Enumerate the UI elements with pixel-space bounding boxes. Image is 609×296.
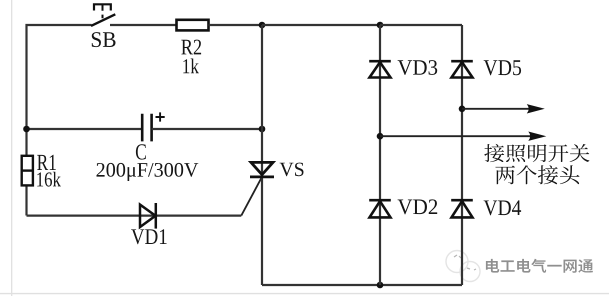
node B junction xyxy=(377,22,384,29)
wire node A to node B xyxy=(262,24,380,26)
label SB xyxy=(92,32,116,47)
node D junction xyxy=(259,126,266,133)
label VD5 xyxy=(484,60,521,75)
label VD2 xyxy=(398,199,438,214)
resistor R1 xyxy=(22,156,33,186)
thyristor VS xyxy=(250,162,274,177)
label R2 xyxy=(181,40,201,55)
node G junction arrow1 tap xyxy=(459,106,466,113)
label value 200uF/300V xyxy=(96,163,198,181)
wire col2 xyxy=(461,25,463,285)
label 16k xyxy=(37,172,61,187)
label VS xyxy=(280,163,304,177)
wire cap row left xyxy=(27,128,142,130)
label VD4 xyxy=(484,200,521,215)
diode VD5 xyxy=(451,61,473,77)
diode VD1 xyxy=(140,203,156,229)
wire cap to node D xyxy=(152,128,262,130)
output arrow 1 xyxy=(462,104,545,113)
diode VD3 xyxy=(369,61,391,77)
watermark text dian gong dian qi yi wang tong xyxy=(486,259,593,273)
node A junction xyxy=(259,22,266,29)
label VD1 xyxy=(131,229,166,244)
label 1k xyxy=(183,58,199,73)
wire bottom-left row xyxy=(27,215,242,217)
wire bottom rail xyxy=(262,284,462,286)
resistor R2 xyxy=(177,20,209,31)
node F junction arrow2 tap xyxy=(377,133,384,140)
capacitor C xyxy=(142,112,165,141)
watermark text white emboss xyxy=(486,260,593,274)
annotation line2 liang ge jie tou xyxy=(495,165,579,184)
wire SB to R2 xyxy=(110,24,177,26)
annotation line1 jie zhao ming kai guan xyxy=(484,144,589,162)
wire R2 to node A xyxy=(209,24,263,26)
diode VD2 xyxy=(369,200,391,217)
wire top rail left segment xyxy=(27,25,92,216)
gate lead of VS xyxy=(241,177,262,216)
diode VD4 xyxy=(451,200,473,217)
label VD3 xyxy=(398,60,438,75)
output arrow 2 xyxy=(380,132,546,141)
node E junction bottom xyxy=(377,282,384,289)
pushbutton SB xyxy=(91,4,115,26)
wire col1 xyxy=(379,25,381,285)
wire center vertical xyxy=(261,25,263,285)
node C-left junction xyxy=(23,126,30,133)
wire node B to top right corner xyxy=(380,24,462,26)
label R1 xyxy=(37,155,56,170)
watermark logo circle xyxy=(446,251,480,282)
label C xyxy=(136,144,146,159)
